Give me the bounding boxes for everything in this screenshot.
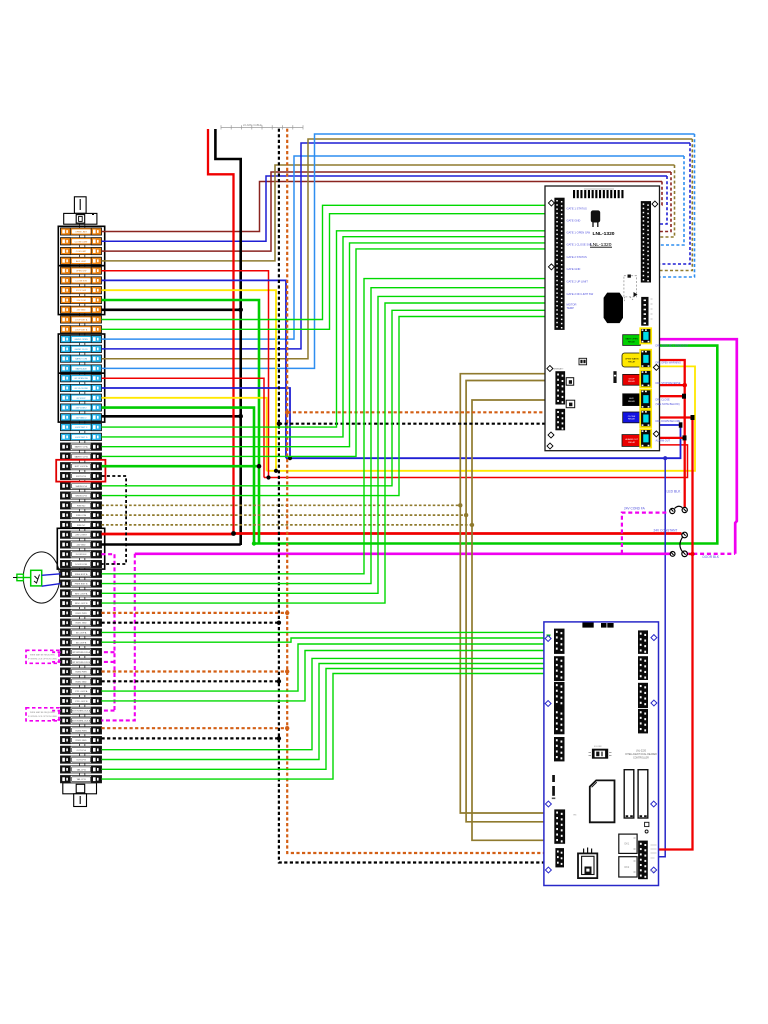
relay K5 label (blue: close) — [623, 412, 641, 423]
wire: T39 rev loop B (green) — [102, 303, 555, 603]
svg-text:CTR LOOP A: CTR LOOP A — [75, 690, 88, 693]
svg-text:IN LOOP A: IN LOOP A — [76, 631, 87, 634]
terminal block T2 (CLOSE LIMIT) — [61, 238, 102, 245]
U2 power terminal block TB12 — [638, 841, 648, 880]
svg-text:LOOP DET C: LOOP DET C — [75, 427, 88, 429]
relay K2 label (yellow: warn) — [622, 353, 641, 367]
svg-text:EXT INTERLOCK A: EXT INTERLOCK A — [72, 710, 91, 713]
svg-text:INTELLIGENT DUAL READER: INTELLIGENT DUAL READER — [625, 753, 657, 756]
svg-text:OUT LP A: OUT LP A — [76, 749, 86, 752]
svg-text:GATE 2 UP LIMIT: GATE 2 UP LIMIT — [567, 280, 589, 284]
wire: T16 close warn (red) — [102, 378, 265, 477]
svg-text:GATE GND: GATE GND — [567, 267, 581, 271]
wire: T38 rev loop A (green) — [102, 296, 555, 593]
junction: orange trunk / T52 — [285, 726, 289, 730]
wire: T7 stop switch (yellow) — [102, 290, 277, 471]
wire: T30 fire input (olive dashed) — [102, 514, 467, 516]
svg-text:RELAY: RELAY — [628, 360, 636, 363]
callout box (magenta dashed): interior interlock note — [26, 650, 59, 663]
U1 input labels (blue) — [567, 207, 594, 311]
terminal strip spine rails — [79, 224, 81, 783]
U1 option jumper area (dashed outline) — [624, 276, 637, 297]
svg-text:FREE EXIT A: FREE EXIT A — [75, 573, 88, 576]
terminal block T19 (24V COM 2) — [61, 404, 102, 411]
wire: T11 loop det B (green) — [102, 214, 555, 330]
terminal block T12 (GATE2 OPEN) — [61, 335, 102, 342]
svg-text:SHDW LP A: SHDW LP A — [75, 485, 87, 488]
wire: T45 to interlock callout (magenta dashed) — [50, 661, 61, 663]
U2 right terminal block TB6 — [638, 630, 648, 654]
wire: T5 open switch (red) — [102, 271, 269, 478]
U2 top edge components — [582, 623, 593, 628]
U1 mounting hole MH6 — [653, 431, 659, 437]
U2 relay RL1 — [624, 770, 634, 818]
svg-text:STOP: STOP — [629, 378, 635, 380]
wire: panel feed (black trunk) — [215, 129, 240, 545]
terminal block T43 (IN LOOP B) — [61, 639, 102, 646]
svg-text:GATE2 CLOS: GATE2 CLOS — [75, 348, 89, 351]
svg-text:RELAY: RELAY — [628, 441, 636, 444]
U1 mounting hole MH8 — [547, 443, 553, 449]
wire: T20 24V GND2 to black trunk — [102, 415, 241, 418]
terminal block T35 (DOOR COM) — [61, 560, 102, 567]
junction: door contact / red drop — [690, 552, 694, 556]
U2 reader terminal block TB10 — [554, 809, 565, 843]
svg-text:24V CONST: 24V CONST — [75, 535, 87, 537]
terminal block T6 (CLOSE S/W) — [61, 277, 102, 284]
svg-text:G2 STOP: G2 STOP — [77, 398, 87, 400]
svg-text:GATE 2 STATUS: GATE 2 STATUS — [567, 255, 588, 259]
U1 right terminal block TB-RDR — [641, 201, 651, 282]
terminal block T33 (24V GND) — [61, 541, 102, 548]
svg-text:CLOSE LIMIT: CLOSE LIMIT — [75, 241, 89, 243]
svg-text:RELAY: RELAY — [628, 418, 636, 421]
svg-text:OPEN LIMIT: OPEN LIMIT — [75, 232, 88, 234]
svg-text:TAIL LP A: TAIL LP A — [77, 768, 87, 771]
svg-text:RELAY: RELAY — [628, 380, 636, 383]
junction: yellow run / T7 branch — [274, 469, 278, 473]
svg-text:G2 OPEN SW: G2 OPEN SW — [75, 378, 88, 380]
wire: yellow run to relay K2 — [267, 366, 695, 470]
wire: T19 24V COM2 (thick green) — [102, 408, 255, 544]
strip top mounting bracket — [74, 197, 86, 214]
wire: T13 reader2 data1 (blue) drop (dashed) — [652, 143, 691, 264]
wire: T28 shadow loop B (green) — [102, 317, 555, 496]
svg-text:OPEN S/W: OPEN S/W — [76, 271, 86, 273]
terminal block T9 (24V GND) — [61, 306, 102, 313]
U2 relay RL2 — [638, 770, 648, 818]
U2 USB/memory socket J2 — [578, 853, 597, 878]
U2 aux terminal block TB11 — [555, 848, 564, 867]
terminal block T27 (SHDW LP A) — [61, 482, 102, 489]
svg-text:FIRE COM: FIRE COM — [76, 515, 86, 517]
wire: magenta riser to relay K1 — [652, 339, 737, 554]
svg-text:FREE EXIT B: FREE EXIT B — [75, 584, 88, 586]
svg-text:RELAY: RELAY — [628, 340, 636, 343]
wire: T40 to orange trunk (orange dashed) — [102, 612, 288, 614]
terminal block T17 (G2 CLOS SW) — [61, 384, 102, 391]
group box: gate2 switch terminals — [58, 373, 104, 422]
terminal block T20 (24V GND 2) — [61, 414, 102, 421]
wire: T18 open warn (yellow) — [102, 398, 267, 471]
svg-text:RDR2 GND: RDR2 GND — [76, 681, 87, 683]
wire: door contact stub to red drop — [689, 553, 693, 555]
wire: T15 reader2 ground (light blue) — [102, 134, 695, 368]
U1 mounting hole MH4 — [547, 366, 553, 372]
terminal block T4 (AUX LIMIT) — [61, 257, 102, 264]
terminal block T51 (EXT INTERLOCK B) — [61, 717, 102, 724]
wire: magenta vertical B (dashed) — [102, 554, 135, 721]
wire: T1 reader LED return (maroon) drop (dashed) — [652, 182, 663, 206]
terminal block T25 (EXIT LOOP A) — [61, 463, 102, 470]
svg-text:24V CONSTANT: 24V CONSTANT — [654, 529, 678, 533]
wire: T9 24V GND to black trunk — [102, 308, 241, 311]
U2 input arrow (green) — [546, 635, 550, 642]
relay K1 (upper board output relay) — [640, 328, 651, 343]
svg-text:ALARM OUT: ALARM OUT — [625, 438, 638, 441]
svg-text:DOOR COM: DOOR COM — [75, 564, 87, 566]
highlight box (red): exit loop terminals — [56, 460, 105, 482]
svg-text:GATE2 OPEN: GATE2 OPEN — [75, 338, 89, 341]
wire: T42 in loop A (green) — [102, 631, 555, 633]
junction: orange trunk / T40 — [285, 611, 289, 615]
wire: T50 to interlock callout (magenta dashed) — [50, 710, 61, 712]
wire: blue drop to lower controller — [647, 458, 666, 857]
svg-text:24V COND FA: 24V COND FA — [624, 507, 646, 511]
terminal block T41 (RDR1 GND) — [61, 619, 102, 626]
U2 right terminal block TB7 — [638, 656, 648, 680]
wire: T32 24V CONST (thick red) — [102, 533, 234, 536]
terminal block T14 (GATE2 COM) — [61, 355, 102, 362]
terminal block T13 (GATE2 CLOS) — [61, 345, 102, 352]
wire: T2 reader data1 (blue) drop (dashed) — [652, 176, 668, 224]
wire: 24V cond FA branch to LED (magenta dashed) — [622, 513, 669, 554]
U2 DIP switch S1 — [592, 749, 608, 759]
junction: black dashed trunk / T53 — [277, 736, 281, 740]
svg-text:SAFETY LP A: SAFETY LP A — [75, 446, 89, 449]
junction: black trunk / T20 — [238, 414, 243, 419]
wire: T13 reader2 data1 (blue) — [102, 143, 691, 349]
svg-text:EXIT LOOP A: EXIT LOOP A — [75, 465, 88, 468]
terminal block T5 (OPEN S/W) — [61, 267, 102, 274]
U1 relay output labels (blue) — [656, 345, 689, 443]
wire: T14 reader2 data0 (olive) — [102, 139, 693, 359]
U2 mounting hole MH2 — [545, 701, 551, 707]
wire: T23 safety loop A (green) — [102, 243, 555, 447]
loop detector module (green) — [31, 570, 42, 586]
U2 processor IC1 (chip with notched corner) — [590, 780, 615, 822]
terminal block T53 (RDR3 GND) — [61, 736, 102, 743]
controller board U2 (LNL-2220) outline — [544, 622, 659, 886]
controller board U1 LNL-1320 outline — [545, 186, 660, 451]
svg-text:ALARM OUT: ALARM OUT — [656, 439, 671, 442]
terminal block T46 (RDR2 PWR) — [61, 668, 102, 675]
svg-text:GATE 2 DN LIMIT SW: GATE 2 DN LIMIT SW — [567, 292, 594, 296]
junction: olive feed3 / T31 — [470, 523, 474, 527]
svg-text:GATE 1 CLOSE S/W: GATE 1 CLOSE S/W — [567, 243, 593, 247]
wire: T43 in loop B (green) — [102, 638, 555, 642]
svg-text:TAIL LP B: TAIL LP B — [76, 778, 86, 781]
wire: green run to relay K1 (thick green) — [254, 346, 717, 544]
highlight box (black): 24V / door terminals — [57, 528, 104, 569]
terminal block T31 (FIRE NC) — [61, 521, 102, 528]
wire: T52 to orange trunk (orange dashed) — [102, 727, 288, 729]
wire: loop detector to aux contact (green) — [17, 577, 31, 579]
wire: T3 reader data0 (maroon) drop (dashed) — [652, 172, 672, 232]
terminal block T44 (INT INTERLOCK A) — [61, 648, 102, 655]
svg-text:GATE GND: GATE GND — [567, 219, 581, 223]
terminal block T1 (OPEN LIMIT) — [61, 228, 102, 235]
terminal block T42 (IN LOOP A) — [61, 629, 102, 636]
terminal block T7 (STOP S/W) — [61, 287, 102, 294]
wire: door blk run (solid magenta) — [135, 552, 671, 555]
terminal block T39 (REV LOOP B) — [61, 600, 102, 607]
svg-text:OUT LP B: OUT LP B — [76, 760, 86, 762]
svg-text:FIRE NO: FIRE NO — [77, 505, 86, 507]
terminal block T30 (FIRE COM) — [61, 512, 102, 519]
svg-text:REV LOOP B: REV LOOP B — [75, 603, 88, 605]
junction: olive feed2 / T30 — [464, 513, 468, 517]
terminal block T52 (RDR3 PWR) — [61, 727, 102, 734]
terminal block T32 (24V CONST) — [61, 531, 102, 538]
U2 left terminal block TB1 — [554, 629, 565, 654]
terminal block T55 (OUT LP B) — [61, 756, 102, 763]
junction: blue run / lower drop — [663, 456, 667, 460]
svg-text:RDR3 PWR: RDR3 PWR — [76, 730, 88, 732]
wire: red run to relay K6 — [264, 445, 688, 478]
U2 left terminal block TB4 — [554, 709, 565, 734]
svg-text:SHDW LP B: SHDW LP B — [75, 496, 87, 498]
junction: red run / T5 branch — [266, 475, 270, 479]
svg-text:EXIT LP B: EXIT LP B — [76, 476, 86, 478]
U2 left terminal block TB3 — [554, 682, 565, 709]
U1 transistor Q1 — [591, 210, 600, 222]
svg-text:RDR1 PWR: RDR1 PWR — [76, 613, 88, 615]
terminal block T36 (FREE EXIT A) — [61, 570, 102, 577]
svg-text:FIRE NC: FIRE NC — [77, 525, 86, 527]
svg-text:GATE OPEN: GATE OPEN — [625, 338, 638, 341]
relay K4 (upper board output relay) — [640, 390, 651, 409]
svg-text:24V GND: 24V GND — [77, 544, 86, 546]
svg-text:STOP S/W: STOP S/W — [76, 290, 86, 292]
wire: 24V constant run to door contact (thick red) — [234, 532, 682, 535]
terminal block T37 (FREE EXIT B) — [61, 580, 102, 587]
svg-text:GATE 1 OPEN S/W: GATE 1 OPEN S/W — [567, 231, 591, 235]
wire: T36 free exit A (green) — [102, 279, 555, 574]
svg-text:CTR LOOP B: CTR LOOP B — [75, 701, 88, 703]
wire: black dashed trunk (panel feed) — [279, 129, 555, 863]
terminal block T28 (SHDW LP B) — [61, 492, 102, 499]
relay K6 label (red: alarm) — [622, 435, 641, 447]
wire: T17 g2 stop (blue) — [102, 388, 291, 458]
wire: T4 reader ground (olive) drop (dashed) — [652, 165, 675, 237]
svg-text:WIRE MAY BE REQUIRED: WIRE MAY BE REQUIRED — [30, 711, 56, 714]
wire: T2 reader data1 (blue) — [102, 176, 668, 241]
callout box (magenta dashed): exterior interlock note — [26, 708, 59, 721]
wire: T37 free exit B (green) — [102, 288, 555, 584]
wire: T12 reader2 LED (light blue) drop (dashed) — [652, 156, 685, 245]
wire: orange trunk branch to U1 — [287, 411, 555, 413]
wire: relay K6 output (red, capped) — [652, 437, 683, 439]
group box: gate1 switch terminals — [58, 266, 104, 315]
U1 mounting hole MH2 — [548, 264, 554, 270]
door contact DOOR-BLK — [670, 532, 687, 556]
U2 fuse F1 — [645, 822, 649, 826]
U2 mounting hole MH5 — [545, 801, 551, 807]
wire: T48 ctr loop A (green) — [102, 644, 555, 691]
U1 memory connector J3 — [641, 297, 648, 326]
svg-text:24V GND 2: 24V GND 2 — [76, 417, 87, 419]
svg-text:EXT INTERLOCK B: EXT INTERLOCK B — [72, 721, 91, 723]
svg-text:DOOR BLK: DOOR BLK — [703, 555, 720, 559]
svg-text:DK1: DK1 — [625, 843, 630, 846]
terminal block T21 (LOOP DET C) — [61, 424, 102, 431]
junction: red trunk / 24V run — [231, 531, 236, 536]
wire: orange dashed trunk (panel feed) — [287, 129, 555, 853]
svg-text:GATE 1 STATUS: GATE 1 STATUS — [567, 207, 588, 211]
wire: T46 to orange trunk (orange dashed) — [102, 670, 288, 672]
junction blob on K5 red corner — [691, 415, 695, 420]
terminal block T11 (LOOP DET B) — [61, 326, 102, 333]
wire: T55 out loop B (green) — [102, 664, 555, 760]
termination cap on K4 red — [682, 394, 686, 399]
wire: T22 loop det D (green) — [102, 237, 555, 437]
U2 left terminal block TB2 — [554, 656, 565, 681]
wire: T33 24V GND3 to black trunk — [102, 543, 241, 546]
group box: gate2 limit terminals — [58, 334, 104, 373]
junction: black dashed trunk / T41 — [277, 621, 281, 625]
U1 resistor pack RP1 — [613, 371, 616, 383]
U2 right terminal block TB8 — [638, 683, 648, 708]
relay K2 (upper board output relay) — [640, 350, 651, 368]
U2 left terminal block TB5 — [554, 737, 565, 761]
wire: vertical A to T44 (magenta dashed) — [102, 651, 115, 653]
junction: orange trunk / U1 branch — [285, 410, 289, 414]
svg-text:GATE2 AUX: GATE2 AUX — [75, 367, 87, 370]
wire: T31 fire input (olive dashed) — [102, 524, 473, 526]
U2 mounting hole MH4 — [651, 700, 657, 706]
U1 mounting hole MH7 — [548, 432, 554, 438]
wire: T56 tail loop A (green) — [102, 669, 555, 770]
junction: orange trunk / T46 — [285, 669, 289, 673]
wire: T54 out loop A (green) — [102, 658, 555, 749]
wire: T10 loop det A (green) — [102, 205, 555, 319]
junction: black trunk / T9 — [238, 308, 243, 313]
U1 buzzer B1 (octagon) — [604, 293, 623, 324]
svg-text:DK2: DK2 — [625, 866, 630, 869]
junction: K2/K3 red join — [682, 383, 687, 388]
svg-text:TEMP: TEMP — [567, 306, 575, 310]
svg-text:CONTROLLER: CONTROLLER — [633, 758, 649, 760]
U1 mounting hole MH5 — [653, 364, 659, 370]
svg-text:LOOP DET D: LOOP DET D — [75, 437, 88, 439]
svg-text:WIRE MAY BE REQUIRED: WIRE MAY BE REQUIRED — [30, 654, 56, 657]
junction: green vertical / T25 — [257, 464, 262, 469]
svg-text:DR1 DOWN/SECURE: DR1 DOWN/SECURE — [656, 420, 681, 423]
terminal block T56 (TAIL LP A) — [61, 766, 102, 773]
svg-text:CLOSE: CLOSE — [628, 416, 636, 418]
svg-text:DOOR BLK: DOOR BLK — [76, 554, 87, 556]
group box: gate1 limit terminals — [58, 226, 104, 265]
wire: T41 to black trunk (black dashed) — [102, 622, 279, 624]
wire: relay K3 output (red) — [652, 384, 685, 386]
terminal block T34 (DOOR BLK) — [61, 551, 102, 558]
svg-text:RDR1 GND: RDR1 GND — [76, 623, 87, 625]
svg-text:DR1 CLOSE: DR1 CLOSE — [656, 398, 671, 401]
svg-text:REV LOOP A: REV LOOP A — [75, 592, 88, 595]
wire: T15 reader2 ground (light blue) drop (dashed) — [652, 134, 695, 277]
terminal block T48 (CTR LOOP A) — [61, 688, 102, 695]
wire: T3 reader data0 (maroon) — [102, 172, 672, 251]
svg-text:24V GND: 24V GND — [77, 310, 86, 312]
svg-text:COM LIMIT: COM LIMIT — [76, 251, 87, 253]
wire: T1 reader LED return (maroon) — [102, 182, 663, 232]
svg-text:DR1 GRN LED + FREE EXIT: DR1 GRN LED + FREE EXIT — [656, 345, 689, 348]
wire: T21 loop det C (green) — [102, 231, 555, 427]
terminal block T24 (SAFETY LP B) — [61, 453, 102, 460]
wire: T8 24V COM (thick green) — [102, 300, 260, 544]
svg-text:IF INTERLOCK OPTION USED: IF INTERLOCK OPTION USED — [28, 659, 58, 661]
terminal block T8 (24V COM) — [61, 296, 102, 303]
wire: T27 shadow loop A (green) — [102, 310, 555, 486]
junction: black dashed trunk / U1 branch — [277, 422, 281, 426]
U1 bottom-left terminal block TB-PWR — [555, 371, 565, 404]
junction: green verticals join — [252, 541, 256, 545]
svg-text:AUX: AUX — [629, 397, 634, 400]
U1 jumper JP3 — [566, 400, 575, 408]
LED indicator LED-BLK — [670, 506, 688, 513]
terminal block T22 (LOOP DET D) — [61, 433, 102, 440]
svg-text:AUX LIMIT: AUX LIMIT — [76, 260, 87, 263]
svg-text:24V COM 2: 24V COM 2 — [76, 408, 88, 410]
terminal block T49 (CTR LOOP B) — [61, 697, 102, 704]
svg-text:LOOP DET A: LOOP DET A — [75, 319, 88, 322]
U2 mounting hole MH6 — [651, 801, 657, 807]
wire: relay K5 red to lower controller (red drop) — [647, 418, 693, 850]
svg-text:S1 OFF: S1 OFF — [594, 746, 602, 748]
svg-text:RDR3 GND: RDR3 GND — [76, 740, 87, 742]
terminal block T57 (TAIL LP B) — [61, 776, 102, 783]
wire: olive feed 3 — [472, 400, 555, 840]
terminal block T26 (EXIT LP B) — [61, 472, 102, 479]
terminal block T23 (SAFETY LP A) — [61, 443, 102, 450]
wire: T49 ctr loop B (green) — [102, 651, 555, 701]
U1 jumper block J5 — [579, 358, 587, 365]
wire: vertical A to T50 (magenta dashed) — [102, 710, 115, 712]
svg-text:(SEE NOTE BELOW): (SEE NOTE BELOW) — [656, 403, 680, 406]
wire: door loop link T26-T35 (black dashed) — [102, 476, 127, 564]
wire: T12 reader2 LED (light blue) — [102, 156, 685, 339]
wire: T44 to interlock callout (magenta dashed) — [50, 651, 61, 653]
relay K5 (upper board output relay) — [640, 410, 651, 427]
wire: black trunk branch to U1 — [279, 423, 555, 425]
terminal block T45 (INT INTERLOCK B) — [61, 658, 102, 665]
svg-text:OPEN WARN: OPEN WARN — [625, 358, 639, 361]
svg-text:24V COM: 24V COM — [77, 300, 86, 302]
wire: T53 to black trunk (black dashed) — [102, 737, 279, 739]
wire: loop detector output to T36 (blue) — [42, 574, 61, 576]
relay K4 label (black: aux) — [623, 394, 641, 406]
svg-text:LNL-2220: LNL-2220 — [636, 751, 647, 753]
scale bar / cable reference at top left — [221, 125, 303, 129]
terminal block T10 (LOOP DET A) — [61, 316, 102, 323]
terminal block T54 (OUT LP A) — [61, 746, 102, 753]
U2 relay K7 — [619, 834, 637, 853]
wire: T51 to interlock callout (magenta dashed) — [50, 719, 61, 721]
U2 test point TP1 — [645, 830, 648, 833]
strip bottom mounting bracket — [63, 783, 97, 794]
wire: vertical A to T45 (magenta dashed) — [102, 661, 115, 663]
